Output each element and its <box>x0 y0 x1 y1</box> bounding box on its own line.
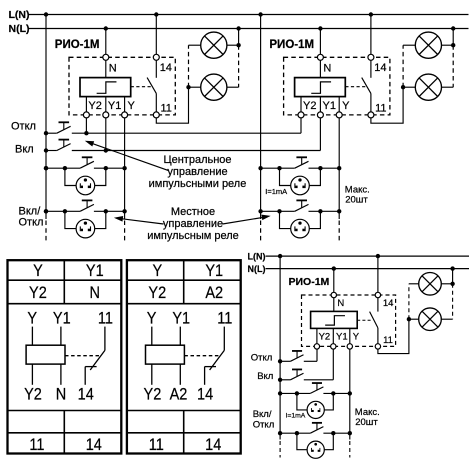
neon lamp a (U1) <box>76 176 95 195</box>
svg-text:Y2: Y2 <box>24 386 42 404</box>
terminal Y (U1) <box>122 112 128 118</box>
wire Y1 stub (U1) <box>105 97 107 112</box>
table outline (N) <box>8 260 122 453</box>
contact 11-14 of U2 <box>370 60 372 78</box>
wire lamp1 right lead (U2) <box>441 44 453 46</box>
svg-text:Вкл: Вкл <box>15 144 34 156</box>
annotation arrow to local buttons (U2) <box>223 217 267 224</box>
svg-text:Y1: Y1 <box>108 100 121 112</box>
svg-text:14: 14 <box>78 386 94 404</box>
wire lamp1 left lead (U3) <box>409 283 419 285</box>
dashed phase bus continuation (U2) <box>260 221 262 242</box>
wire Y line down (U2) <box>338 118 340 219</box>
wire Y1 down to ON row (U1) <box>105 118 107 151</box>
svg-text:20шт: 20шт <box>345 194 368 205</box>
svg-text:11: 11 <box>161 103 172 115</box>
bus N(L) <box>29 28 469 30</box>
terminal Y2 (U3) <box>314 344 319 349</box>
dashed outline U3 <box>302 295 396 346</box>
dashed lamp-left extension (U3) <box>408 284 410 319</box>
lamp EL2 (U1) <box>201 74 227 100</box>
lamp EL1 (U3) <box>419 273 442 296</box>
annotation arrow to local buttons (U1) <box>118 218 164 224</box>
terminal Y1 (U3) <box>331 344 336 349</box>
terminal Y2 (U1) <box>83 112 89 118</box>
wire L(N) drop to 14 terminal (U1) <box>155 15 157 55</box>
dashed actuator link (U2) <box>345 86 366 88</box>
terminal N (U1) <box>103 54 109 60</box>
svg-text:Y: Y <box>353 332 360 343</box>
svg-text:11: 11 <box>149 436 164 454</box>
annotation arrow to central buttons <box>88 142 169 171</box>
terminal 11 (U1) <box>153 112 159 118</box>
svg-text:Откл: Откл <box>19 217 44 229</box>
wire phase bus drop (U1) <box>45 15 47 220</box>
pushbutton local a (U3) <box>310 387 323 394</box>
relay coil U1 <box>80 78 131 97</box>
svg-text:I=1mA: I=1mA <box>265 187 287 196</box>
svg-text:Y1: Y1 <box>323 100 336 112</box>
node lamp branch right b (U2) <box>318 209 322 213</box>
svg-text:11: 11 <box>29 436 44 454</box>
svg-text:A2: A2 <box>170 386 188 404</box>
svg-text:Y1: Y1 <box>336 332 348 343</box>
table row lines (A2) <box>127 279 241 281</box>
dashed lamp-right extension (U1) <box>238 45 240 87</box>
terminal Y (U2) <box>336 112 342 118</box>
wire Y2 down to OFF row (U1) <box>85 118 87 133</box>
pushbutton central OFF <box>57 126 71 133</box>
svg-text:20шт: 20шт <box>355 417 378 428</box>
terminal 11 (U2) <box>368 112 374 118</box>
svg-text:Вкл/: Вкл/ <box>253 409 272 420</box>
svg-text:Y2: Y2 <box>319 332 331 343</box>
svg-text:Y2: Y2 <box>29 284 47 302</box>
dashed lamp-left extension (U1) <box>188 45 190 87</box>
pushbutton local b (U2) <box>295 204 309 211</box>
table outline (A2) <box>127 260 241 453</box>
wire N(L) drop to N terminal (U2) <box>319 29 321 55</box>
pictogram wire A2 (A2) <box>179 364 181 385</box>
relay coil U2 <box>295 78 346 97</box>
wire OFF row (U3) <box>280 360 290 362</box>
svg-text:управление: управление <box>163 218 223 230</box>
svg-text:N: N <box>109 62 117 74</box>
svg-text:I=1mA: I=1mA <box>286 413 306 420</box>
pushbutton central ON <box>57 144 71 151</box>
wire phase bus drop (U2) <box>260 15 262 220</box>
pictogram wire Y (A2) <box>151 327 153 346</box>
svg-text:РИО-1М: РИО-1М <box>289 276 330 288</box>
svg-text:Y1: Y1 <box>172 310 190 328</box>
terminal Y (U3) <box>347 344 352 349</box>
lamp EL2 (U3) <box>419 308 442 331</box>
dashed Y line continuation (U2) <box>338 221 340 242</box>
svg-text:Местное: Местное <box>171 206 215 218</box>
svg-text:11: 11 <box>98 310 113 328</box>
node lamp-left junction (U2) <box>401 85 405 89</box>
svg-text:14: 14 <box>160 62 172 74</box>
pushbutton ON (U3) <box>290 373 303 380</box>
wire lamp1 right lead (U1) <box>227 44 239 46</box>
wire N(L) drop to N terminal (U1) <box>105 29 107 55</box>
node lamp branch right b (U3) <box>331 431 335 435</box>
neon lamp a (U2) <box>291 176 310 195</box>
svg-text:Откл: Откл <box>253 420 275 431</box>
svg-text:Вкл/: Вкл/ <box>19 205 42 217</box>
bus L(N) (U3) <box>266 255 470 257</box>
wire Y stub (U2) <box>338 97 340 112</box>
wire lamp2 left lead (U3) <box>409 318 419 320</box>
contact 11-14 of U1 <box>155 60 157 78</box>
svg-text:Y2: Y2 <box>144 386 162 404</box>
wire local row a (U3) <box>280 392 310 394</box>
node bus row a <box>44 166 48 170</box>
wire neon branch b (U1) <box>65 211 76 228</box>
wire L(N) drop to 14 terminal (U2) <box>370 15 372 55</box>
node lamp branch left b (U1) <box>63 209 67 213</box>
bus N(L) (U3) <box>266 268 470 270</box>
svg-text:Центральное: Центральное <box>163 154 231 166</box>
dashed actuator link (U1) <box>131 86 152 88</box>
svg-text:11: 11 <box>383 335 393 346</box>
wire local row a (U2) <box>261 167 295 169</box>
pictogram wire Y2 (A2) <box>151 364 153 385</box>
terminal 14 (U2) <box>368 54 374 60</box>
wire N(L) drop to N terminal (U3) <box>333 269 335 293</box>
wire local row b (U2) <box>261 210 295 212</box>
wire Y2 stub (U3) <box>316 328 318 343</box>
dashed Y line continuation (U3) <box>349 441 351 458</box>
wire Y line down (U1) <box>124 118 126 219</box>
node lamp branch right b (U1) <box>104 209 108 213</box>
pictogram wire Y1 (N) <box>60 327 62 346</box>
svg-text:управление: управление <box>167 166 227 178</box>
svg-text:N: N <box>323 62 331 74</box>
neon lamp a (U3) <box>307 401 324 418</box>
svg-text:N(L): N(L) <box>9 23 30 35</box>
node lamp branch left b (U3) <box>295 431 299 435</box>
wire Y1 stub (U3) <box>332 328 334 343</box>
wire Y2 stub (U1) <box>85 97 87 112</box>
contact 11-14 of U3 <box>377 298 379 312</box>
wire lamp1 right lead (U3) <box>441 283 452 285</box>
wire central OFF row <box>46 132 57 134</box>
svg-text:Y1: Y1 <box>205 262 223 280</box>
svg-text:14: 14 <box>86 436 102 454</box>
neon lamp b (U1) <box>76 219 95 238</box>
terminal 14 (U3) <box>375 292 380 297</box>
terminal N (U2) <box>317 54 323 60</box>
svg-text:РИО-1М: РИО-1М <box>269 39 314 51</box>
node lamp branch left a (U3) <box>295 391 299 395</box>
wire lamp2 right lead (U3) <box>441 318 452 320</box>
wire ON row (U3) <box>280 379 290 381</box>
dashed lamp-right extension (U2) <box>452 45 454 87</box>
svg-text:14: 14 <box>383 298 394 309</box>
svg-text:N: N <box>337 298 344 309</box>
wire N stub (U1) <box>105 60 107 77</box>
node lamp branch right a (U3) <box>331 391 335 395</box>
wire N stub (U3) <box>333 298 335 312</box>
pictogram wire Y (N) <box>31 327 33 346</box>
wire neon branch b (U3) <box>297 433 307 450</box>
wire N stub (U2) <box>319 60 321 77</box>
wire Y stub (U1) <box>124 97 126 112</box>
dashed outline U1 <box>69 57 175 115</box>
wire neon branch a (U1) <box>65 168 76 185</box>
wire local row a (U1) <box>46 167 80 169</box>
terminal Y1 (U2) <box>317 112 323 118</box>
pushbutton local a (U2) <box>295 161 309 168</box>
svg-text:Y: Y <box>27 310 37 328</box>
lamp EL1 (U2) <box>415 32 441 58</box>
pushbutton local b (U1) <box>80 204 94 211</box>
terminal Y2 (U2) <box>298 112 304 118</box>
svg-text:L(N): L(N) <box>9 9 30 21</box>
pictogram dashed actuator (N) <box>65 355 99 357</box>
svg-text:Y: Y <box>147 310 157 328</box>
svg-text:A2: A2 <box>205 284 223 302</box>
dashed lamp-left extension (U2) <box>402 45 404 87</box>
svg-text:Y: Y <box>342 100 350 112</box>
svg-text:РИО-1М: РИО-1М <box>55 39 100 51</box>
wire neon branch a (U2) <box>280 168 291 185</box>
svg-text:импульсными реле: импульсными реле <box>149 178 247 190</box>
wire neon branch a (U3) <box>297 393 307 410</box>
pictogram dashed actuator (A2) <box>184 355 218 357</box>
table column line (N) <box>63 260 65 304</box>
wire Y2 stub (U2) <box>300 97 302 112</box>
wire lamp2 left lead (U1) <box>189 86 201 88</box>
wire lamp2 right lead (U2) <box>441 86 453 88</box>
wire 11 to lamp group (U2) <box>371 87 403 123</box>
table column line (A2) <box>183 260 185 304</box>
pictogram coil box (N) <box>26 345 65 364</box>
svg-text:N: N <box>90 284 100 302</box>
wire L(N) drop to 14 terminal (U3) <box>377 256 379 292</box>
wire Y1 stub (U2) <box>319 97 321 112</box>
svg-text:11: 11 <box>375 103 386 115</box>
wire Y stub (U3) <box>349 328 351 343</box>
node bus row b <box>44 209 48 213</box>
svg-text:Y1: Y1 <box>53 310 71 328</box>
dashed phase bus continuation (U1) <box>45 221 47 242</box>
dashed outline U2 <box>284 57 390 115</box>
terminal 11 (U3) <box>375 344 380 349</box>
wire lamp1 left lead (U2) <box>403 44 415 46</box>
terminal N (U3) <box>331 292 336 297</box>
node lamp-left junction (U3) <box>407 317 411 321</box>
svg-text:Y2: Y2 <box>148 284 166 302</box>
pictogram wire N (N) <box>60 364 62 385</box>
pushbutton local a (U1) <box>80 161 94 168</box>
svg-text:N: N <box>56 386 66 404</box>
pictogram wire Y2 (N) <box>31 364 33 385</box>
relay coil U3 <box>311 311 358 328</box>
svg-text:Откл: Откл <box>11 121 36 133</box>
wire phase bus drop (U3) <box>279 256 281 439</box>
bus L(N) <box>29 14 469 16</box>
pushbutton local b (U3) <box>310 427 323 434</box>
pushbutton OFF (U3) <box>290 355 303 362</box>
dashed phase bus continuation (U3) <box>279 441 281 458</box>
dashed actuator link (U3) <box>357 319 373 321</box>
wire Y line down (U3) <box>349 349 351 439</box>
wire 11 to lamp group (U3) <box>378 319 409 353</box>
svg-text:14: 14 <box>197 386 213 404</box>
svg-text:Y1: Y1 <box>86 262 104 280</box>
dashed lamp-right extension (U3) <box>452 284 454 319</box>
wire lamp-right to N(L) (U2) <box>452 29 454 46</box>
node lamp branch right a (U1) <box>104 166 108 170</box>
wire lamp1 left lead (U1) <box>189 44 201 46</box>
wire local row b (U1) <box>46 210 80 212</box>
svg-text:импульсным реле: импульсным реле <box>147 230 239 242</box>
dashed Y line continuation (U1) <box>124 221 126 242</box>
node lamp branch left a (U2) <box>277 166 281 170</box>
svg-text:Y: Y <box>128 100 136 112</box>
svg-text:Y: Y <box>33 262 43 280</box>
wire neon branch b (U2) <box>280 211 291 228</box>
node lamp branch left b (U2) <box>277 209 281 213</box>
pictogram contact (A2) <box>223 327 225 351</box>
wire lamp2 right lead (U1) <box>227 86 239 88</box>
wire 11 to lamp group (U1) <box>156 87 188 123</box>
svg-text:Y: Y <box>152 262 162 280</box>
svg-text:Вкл: Вкл <box>257 371 273 382</box>
svg-text:L(N): L(N) <box>248 251 266 261</box>
wire central ON row <box>46 150 57 152</box>
svg-text:14: 14 <box>205 436 221 454</box>
pictogram coil box (A2) <box>146 345 185 364</box>
neon lamp b (U3) <box>307 441 324 458</box>
node lamp-left junction (U1) <box>186 85 190 89</box>
table row lines (N) <box>8 279 122 281</box>
svg-text:Y2: Y2 <box>303 100 316 112</box>
wire lamp2 left lead (U2) <box>403 86 415 88</box>
pictogram wire Y1 (A2) <box>179 327 181 346</box>
neon lamp b (U2) <box>291 219 310 238</box>
svg-text:11: 11 <box>217 310 232 328</box>
svg-text:N(L): N(L) <box>248 264 266 274</box>
lamp EL1 (U1) <box>201 32 227 58</box>
lamp EL2 (U2) <box>415 74 441 100</box>
terminal 14 (U1) <box>153 54 159 60</box>
wire lamp-right to N(L) (U3) <box>452 269 454 284</box>
wire local row b (U3) <box>280 432 310 434</box>
pictogram contact (N) <box>104 327 106 351</box>
node lamp branch right a (U2) <box>318 166 322 170</box>
wire lamp-right to N(L) (U1) <box>238 29 240 46</box>
node lamp branch left a (U1) <box>63 166 67 170</box>
svg-text:Откл: Откл <box>251 352 273 363</box>
svg-text:14: 14 <box>374 62 386 74</box>
svg-text:Y2: Y2 <box>88 100 101 112</box>
terminal Y1 (U1) <box>103 112 109 118</box>
